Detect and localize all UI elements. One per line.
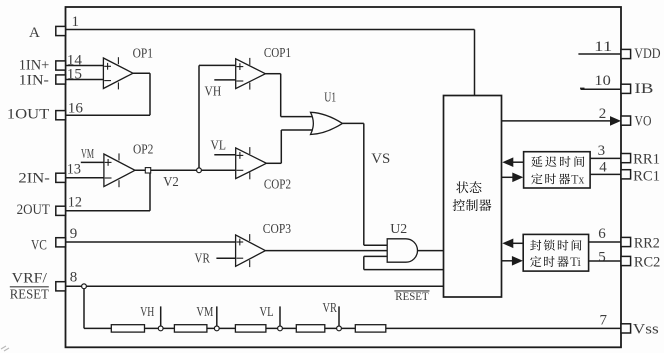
- svg-text:VL: VL: [211, 138, 227, 153]
- arrow controller to timer Ti: [502, 260, 514, 262]
- pin 12 square: [56, 206, 66, 215]
- wire VH to COP1 -: [214, 79, 235, 81]
- wire pin 15 to OP1 -: [66, 79, 104, 81]
- wire pin 13 to OP2 -: [66, 177, 104, 179]
- wire OP2 feedback to pin 12: [149, 173, 151, 211]
- arrow timer Ti to controller: [513, 242, 524, 244]
- wire pin 9 VC to COP3 +: [66, 241, 236, 243]
- pin 2 square: [621, 116, 631, 125]
- wire timer Ti to pin 5 RC2: [589, 260, 621, 262]
- pin 13 square: [56, 173, 66, 182]
- svg-text:1: 1: [72, 14, 80, 30]
- svg-text:U1: U1: [324, 90, 336, 105]
- pin 11 square: [621, 49, 631, 58]
- svg-text:RR2: RR2: [634, 235, 660, 251]
- svg-text:VC: VC: [31, 237, 47, 253]
- resistor R2: [174, 325, 207, 332]
- wire VL to COP2 +: [214, 154, 235, 156]
- svg-text:8: 8: [70, 270, 78, 286]
- svg-text:1IN-: 1IN-: [19, 73, 49, 89]
- svg-text:2OUT: 2OUT: [17, 202, 50, 218]
- svg-text:2: 2: [599, 106, 607, 122]
- node junction on RESET wire: [82, 284, 87, 289]
- node VR tap: [337, 326, 342, 331]
- wire OP1 output feedback to pin 16: [133, 72, 150, 74]
- wire timer Tx to pin 4 RC1: [590, 173, 621, 175]
- svg-text:VRF/: VRF/: [12, 271, 48, 287]
- pin 5 square: [621, 256, 631, 265]
- svg-text:RR1: RR1: [633, 151, 660, 167]
- node VH tap: [158, 326, 163, 331]
- wire U1 output to VS line: [342, 122, 363, 124]
- node VM tap: [214, 326, 219, 331]
- resistor R1: [111, 325, 144, 332]
- svg-text:Tx: Tx: [571, 172, 585, 186]
- IC outer boundary box: [66, 7, 622, 347]
- pin 4 square: [621, 170, 631, 179]
- svg-text:COP2: COP2: [264, 178, 291, 193]
- node V2 junction: [197, 168, 202, 173]
- comparator COP2: [236, 148, 267, 179]
- svg-text:9: 9: [70, 226, 78, 242]
- svg-text:VR: VR: [195, 251, 211, 266]
- or-gate U1: [311, 112, 343, 134]
- svg-text:7: 7: [600, 313, 608, 329]
- block U3 state controller 状态控制器: [444, 96, 502, 298]
- svg-text:13: 13: [67, 162, 81, 178]
- svg-text:RESET: RESET: [10, 287, 49, 302]
- svg-text:OP1: OP1: [133, 46, 153, 61]
- wire pin 11 VDD stub: [578, 53, 621, 55]
- svg-text:U2: U2: [390, 222, 407, 237]
- resistor R4: [296, 325, 325, 332]
- pin 3 square: [621, 154, 631, 163]
- arrow controller to timer Tx: [502, 176, 514, 178]
- svg-text:1IN+: 1IN+: [19, 58, 50, 74]
- svg-text:10: 10: [594, 73, 610, 89]
- svg-text:2IN-: 2IN-: [18, 170, 49, 186]
- svg-text:VL: VL: [260, 304, 274, 319]
- wire COP2 output to U1: [266, 162, 281, 164]
- svg-text:12: 12: [68, 195, 82, 211]
- wire OP2 output: [135, 169, 199, 171]
- resistor R5: [355, 325, 386, 332]
- svg-text:VS: VS: [371, 151, 390, 167]
- svg-text:6: 6: [598, 226, 606, 242]
- wire U2 bottom input from controller: [364, 255, 387, 257]
- resistor R3: [235, 325, 266, 332]
- comparator COP1: [236, 59, 266, 89]
- svg-text:5: 5: [598, 249, 606, 265]
- svg-text:VDD: VDD: [634, 46, 660, 62]
- wire resistor chain to pin 7 Vss: [84, 327, 621, 329]
- pin 7 square: [621, 324, 631, 333]
- svg-text:VM: VM: [196, 304, 213, 319]
- pin 14 square: [56, 61, 66, 70]
- wire pin 8 VRF/RESET to controller: [66, 285, 444, 287]
- wire U2 output to controller: [418, 250, 444, 252]
- svg-text:COP1: COP1: [264, 46, 291, 61]
- and-gate U2: [387, 239, 417, 262]
- block delay timer 延迟时间定时器Tx: [524, 152, 591, 188]
- svg-text:RC1: RC1: [633, 168, 660, 184]
- comparator COP3: [236, 235, 266, 266]
- wire VR to COP3 -: [216, 257, 235, 259]
- svg-text:VM: VM: [81, 147, 94, 162]
- pin 15 square: [56, 75, 66, 84]
- pin 8 square: [56, 282, 66, 291]
- wire VS vertical to U2 top input: [363, 123, 365, 245]
- svg-text:11: 11: [594, 39, 612, 55]
- wire VM to OP2 +: [81, 161, 104, 163]
- wire controller to pin 2 VO with arrow: [502, 120, 613, 122]
- svg-text:V2: V2: [163, 175, 179, 190]
- svg-text:Ti: Ti: [570, 255, 582, 269]
- wire timer Tx to pin 3 RR1: [590, 157, 621, 159]
- wire COP1 output to U1: [265, 73, 280, 75]
- svg-text:16: 16: [68, 101, 84, 117]
- svg-text:VO: VO: [635, 113, 652, 129]
- svg-text:Vss: Vss: [633, 321, 659, 337]
- wire pin 10 IB stub: [581, 88, 622, 90]
- wire pin 14 to OP1 +: [66, 65, 104, 67]
- pin 6 square: [621, 237, 631, 246]
- wire V2 to COP2 -: [201, 169, 235, 171]
- wire V2 up to COP1 +: [198, 65, 200, 167]
- pin 9 square: [56, 238, 66, 247]
- op-amp OP1: [103, 58, 133, 89]
- wire timer Ti to pin 6 RR2: [589, 241, 621, 243]
- svg-text:1OUT: 1OUT: [7, 107, 50, 123]
- svg-text:OP2: OP2: [133, 143, 153, 158]
- block lockout timer 封锁时间定时器Ti: [523, 234, 588, 271]
- svg-text:COP3: COP3: [263, 222, 291, 237]
- node VL tap: [278, 326, 283, 331]
- wire pin A (1) to state controller top: [66, 29, 475, 31]
- svg-text:RC2: RC2: [634, 255, 660, 271]
- svg-text:VR: VR: [323, 300, 338, 315]
- pin A (1) square: [56, 26, 66, 35]
- svg-text:IB: IB: [634, 81, 653, 97]
- junction square OP2 output: [145, 168, 150, 173]
- wire junction down to resistor chain: [83, 289, 85, 329]
- svg-text:VH: VH: [140, 304, 154, 319]
- svg-text:4: 4: [599, 160, 607, 176]
- pin 16 square: [56, 111, 66, 120]
- wire COP3 output to U2 middle input: [265, 250, 387, 252]
- svg-text:VH: VH: [205, 84, 222, 99]
- svg-text:3: 3: [598, 143, 606, 159]
- op-amp OP2: [104, 154, 135, 187]
- arrow timer Tx to controller: [513, 161, 524, 163]
- svg-text:A: A: [29, 25, 40, 41]
- pin 10 square: [621, 84, 631, 93]
